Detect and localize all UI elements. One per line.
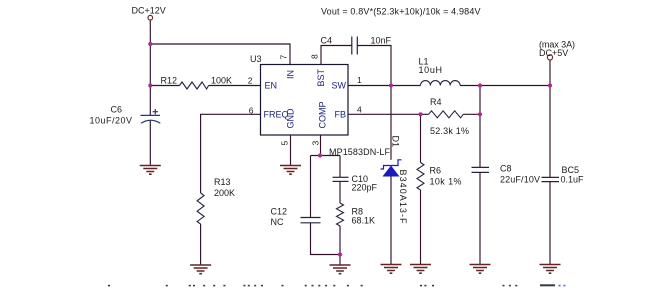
svg-text:2: 2 [248, 76, 253, 86]
terminal DC+12V [148, 15, 153, 20]
svg-text:5: 5 [280, 141, 290, 146]
node junction dots [148, 42, 552, 257]
svg-text:R12: R12 [161, 76, 178, 86]
op-amp U3 chip body MP1583 [261, 65, 349, 136]
terminal DC+5V [547, 55, 552, 60]
svg-text:D1: D1 [391, 136, 401, 148]
svg-text:6: 6 [249, 106, 254, 116]
node FB junction [418, 112, 422, 116]
wire comp node horizontal [311, 155, 341, 157]
capacitor C10 [333, 177, 349, 181]
svg-text:7: 7 [279, 55, 289, 60]
svg-text:4: 4 [357, 105, 362, 115]
wire C10 to R8 [339, 182, 341, 203]
svg-text:U3: U3 [250, 54, 262, 64]
capacitor BC5 [542, 177, 560, 181]
svg-text:22uF/10V: 22uF/10V [500, 175, 540, 185]
svg-text:200K: 200K [214, 188, 235, 198]
wire out junction to DC+5V column [480, 85, 550, 87]
wire C10 top [339, 156, 341, 178]
wire R13 bottom [200, 224, 202, 265]
wire L1 to out junction [460, 85, 480, 87]
wire FREQ to R13 [201, 114, 261, 193]
svg-text:C4: C4 [321, 36, 333, 46]
wire BST riser [321, 46, 352, 65]
wire DC+12V vertical [149, 20, 151, 115]
resistor R4 [429, 111, 464, 118]
wire D1 lower [390, 176, 392, 265]
wire C4 to SW node [358, 46, 392, 86]
svg-text:0.1uF: 0.1uF [561, 174, 585, 184]
wire D1 upper [390, 86, 392, 160]
ground below R6 [410, 265, 431, 274]
wire R12 right lead to EN [209, 85, 261, 87]
svg-text:8: 8 [310, 54, 320, 59]
node COMP junction [318, 153, 322, 157]
wire GND pin5 stub [290, 135, 292, 166]
resistor R6 [417, 163, 424, 191]
svg-text:B340A13-F: B340A13-F [398, 170, 408, 225]
wire junction to L1 [391, 85, 421, 87]
wire FB row [348, 113, 429, 115]
resistor R12 [180, 82, 209, 89]
capacitor C12 [301, 218, 321, 223]
wire R4 right lead [463, 113, 480, 115]
ground below C12 R8 [330, 265, 351, 274]
node EN row junction [148, 83, 152, 87]
wire R8 bottom [339, 226, 341, 265]
svg-text:SW: SW [332, 81, 347, 91]
svg-text:10uH: 10uH [419, 65, 443, 75]
svg-text:BST: BST [316, 68, 326, 86]
diode D1 schottky [381, 160, 402, 176]
svg-text:10nF: 10nF [371, 36, 392, 46]
ground below C8 [470, 265, 491, 274]
wire C6 lower [149, 120, 151, 166]
wire C12 top [310, 156, 312, 218]
svg-text:DC+12V: DC+12V [132, 6, 166, 16]
capacitor C8 [472, 167, 490, 172]
svg-text:MP1583DN-LF: MP1583DN-LF [329, 147, 391, 157]
node top rail junction [148, 42, 152, 46]
wire C12 bottom [311, 223, 341, 255]
svg-text:220pF: 220pF [352, 183, 378, 193]
svg-text:C8: C8 [500, 164, 512, 174]
wire SW to junction [348, 85, 391, 87]
ground below C6 [140, 166, 161, 175]
wire C8 column upper [479, 86, 481, 168]
ground below D1 [381, 265, 402, 274]
node SW junction [389, 83, 393, 87]
node R4 right junction [478, 112, 482, 116]
wire R6 upper [420, 114, 422, 162]
ground below BC5 [540, 265, 561, 274]
node R8 C12 junction [338, 252, 342, 256]
svg-text:NC: NC [271, 217, 284, 227]
wire COMP stub [320, 135, 322, 156]
svg-text:100K: 100K [211, 76, 232, 86]
resistor R13 [197, 193, 204, 224]
svg-text:1: 1 [357, 75, 362, 85]
capacitor C6 polarized [141, 109, 161, 123]
node L1 out junction [478, 83, 482, 87]
svg-text:68.1K: 68.1K [352, 215, 376, 225]
ground below R13 [190, 265, 211, 274]
svg-text:COMP: COMP [318, 102, 328, 129]
wire top horizontal to IN [150, 44, 290, 65]
svg-text:BC5: BC5 [562, 165, 580, 175]
svg-text:GND: GND [286, 108, 296, 129]
node DC+5V junction [548, 83, 552, 87]
svg-text:FB: FB [335, 110, 347, 120]
wire C8 column lower [479, 173, 481, 265]
svg-text:EN: EN [265, 81, 278, 91]
svg-text:C12: C12 [271, 207, 288, 217]
svg-text:Vout = 0.8V*(52.3k+10k)/10k =: Vout = 0.8V*(52.3k+10k)/10k = 4.984V [321, 6, 481, 16]
svg-text:3: 3 [311, 141, 321, 146]
resistor R8 [337, 203, 344, 226]
svg-text:R6: R6 [430, 166, 442, 176]
wire BC5 lower [549, 182, 551, 265]
svg-text:52.3k 1%: 52.3k 1% [430, 126, 469, 136]
bottom cropped text dots [108, 284, 555, 286]
wire R12 left lead [150, 85, 179, 87]
capacitor C4 [352, 37, 358, 55]
svg-text:10uF/20V: 10uF/20V [90, 115, 133, 125]
svg-text:IN: IN [286, 70, 296, 79]
ground below pin5 [280, 166, 301, 175]
svg-text:DC+5V: DC+5V [539, 48, 568, 58]
svg-text:C6: C6 [111, 105, 123, 115]
svg-text:10k 1%: 10k 1% [430, 177, 462, 187]
inductor L1 [421, 81, 461, 86]
wire R6 lower [420, 190, 422, 265]
wire DC+5V vertical [549, 60, 551, 177]
svg-text:R13: R13 [214, 177, 231, 187]
svg-text:R4: R4 [430, 97, 442, 107]
